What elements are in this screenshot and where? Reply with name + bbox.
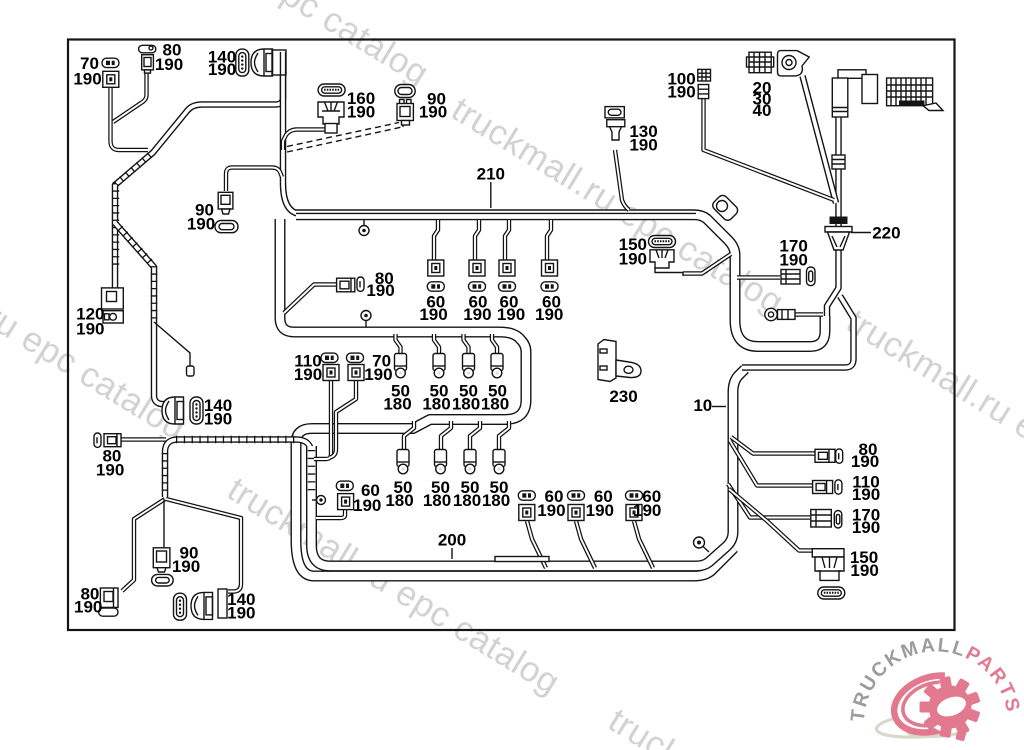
svg-text:190: 190 xyxy=(852,518,880,537)
clip at trunk200 corner xyxy=(703,547,709,553)
right column wires xyxy=(731,437,815,454)
wire 80/190 top lead xyxy=(113,72,147,122)
svg-text:180: 180 xyxy=(481,395,509,414)
pink swoosh crescents (behind gear) xyxy=(894,676,959,733)
140/190 mid-left xyxy=(162,397,184,424)
60/190 left-mid xyxy=(336,481,353,490)
bracket with hole 20/30/40 xyxy=(778,51,810,76)
wire from 80/190 left to striped pipe xyxy=(121,437,166,441)
svg-text:190: 190 xyxy=(347,103,375,122)
svg-text:190: 190 xyxy=(629,136,657,155)
clip on loop top xyxy=(365,321,367,328)
trunk 210 xyxy=(296,215,825,347)
svg-text:190: 190 xyxy=(586,501,614,520)
eyelet terminal xyxy=(765,308,777,320)
left loop pipe (middle) xyxy=(280,219,734,576)
90/190 mid connector xyxy=(218,192,233,209)
row2 50/180 wires xyxy=(404,421,414,450)
dashed wires to 90/190 xyxy=(287,127,402,152)
clip on striped pipe xyxy=(312,499,317,501)
bottom 140/190 xyxy=(174,593,187,620)
80/190 left xyxy=(94,433,101,447)
svg-text:190: 190 xyxy=(419,305,447,324)
100/190 wire xyxy=(704,98,835,200)
leader lines xyxy=(452,182,871,559)
svg-text:190: 190 xyxy=(204,410,232,429)
svg-text:180: 180 xyxy=(383,395,411,414)
sleeve on 220 pipe xyxy=(832,155,845,169)
eyelet wire xyxy=(795,312,823,316)
150/190 center connector xyxy=(649,236,676,248)
20/30/40 wire xyxy=(803,76,837,203)
bottom-left 80/190 xyxy=(100,588,118,607)
pipe top-left run to 120/190 xyxy=(115,52,283,292)
thin branch to small connector xyxy=(154,322,190,366)
svg-text:190: 190 xyxy=(850,561,878,580)
svg-text:190: 190 xyxy=(294,365,322,384)
svg-text:190: 190 xyxy=(96,461,124,480)
svg-text:190: 190 xyxy=(366,281,394,300)
row1 50/180 boots xyxy=(395,354,407,378)
svg-text:190: 190 xyxy=(537,501,565,520)
svg-text:10: 10 xyxy=(693,396,712,415)
svg-text:190: 190 xyxy=(497,305,525,324)
220 drop pipe xyxy=(827,117,839,316)
left striped horizontal pipe xyxy=(165,440,312,498)
svg-text:190: 190 xyxy=(851,452,879,471)
60/190 left-mid wire xyxy=(316,510,345,518)
bottom-left split wires xyxy=(122,499,165,591)
svg-text:40: 40 xyxy=(753,101,772,120)
svg-text:180: 180 xyxy=(482,491,510,510)
bottom 90/190 xyxy=(153,548,170,568)
160/190 wire xyxy=(283,130,326,151)
110/190 pair wires xyxy=(314,381,331,459)
svg-text:190: 190 xyxy=(852,485,880,504)
svg-text:190: 190 xyxy=(463,305,491,324)
row1 50/180 wires xyxy=(396,334,401,354)
svg-text:190: 190 xyxy=(74,598,102,617)
svg-text:190: 190 xyxy=(73,70,101,89)
main vertical pipe from top connectors xyxy=(283,75,300,214)
corrugation stripes left trunk xyxy=(116,155,150,268)
splice bump on trunk 200 xyxy=(495,557,549,562)
svg-text:180: 180 xyxy=(423,491,451,510)
connector 70/190 xyxy=(102,58,119,67)
gray shadow swooshes xyxy=(876,718,962,737)
connector 100/190 xyxy=(698,69,711,81)
130/190 wire xyxy=(615,150,629,210)
mounting tab with hole at trunk elbow xyxy=(711,193,740,222)
four 60/190 connectors xyxy=(428,260,444,276)
svg-text:190: 190 xyxy=(227,604,255,623)
230 bracket xyxy=(598,340,616,382)
svg-text:180: 180 xyxy=(453,491,481,510)
170/190 center connector xyxy=(781,270,800,285)
svg-text:190: 190 xyxy=(172,557,200,576)
svg-text:210: 210 xyxy=(477,164,505,183)
svg-text:220: 220 xyxy=(872,224,900,243)
svg-text:190: 190 xyxy=(419,103,447,122)
connector 20/30/40 grid xyxy=(749,52,771,72)
L-boot connector xyxy=(838,70,866,79)
svg-text:180: 180 xyxy=(452,395,480,414)
right column connectors xyxy=(815,449,835,462)
left-mid 80/190 wire xyxy=(284,285,336,314)
svg-text:180: 180 xyxy=(422,395,450,414)
svg-text:190: 190 xyxy=(619,250,647,269)
svg-text:200: 200 xyxy=(438,531,466,550)
four 60/190 drop wires from trunk 210 xyxy=(434,220,438,261)
wire 70/190 lead xyxy=(111,88,149,150)
connector 80/190 top xyxy=(139,45,156,53)
150/190 wire xyxy=(683,254,731,274)
clip on trunk 210 xyxy=(363,220,365,226)
row2 50/180 boots xyxy=(397,450,409,474)
connector 140/190 top xyxy=(236,49,249,76)
90/190 mid wire xyxy=(226,168,282,192)
170/190 wire xyxy=(737,275,780,279)
connector 90/190 top xyxy=(395,85,415,98)
svg-text:190: 190 xyxy=(535,305,563,324)
striped vertical into trunk200 xyxy=(312,369,746,566)
right grid connector xyxy=(887,78,933,106)
svg-text:180: 180 xyxy=(385,491,413,510)
80/190 left-mid connector xyxy=(337,278,355,292)
svg-text:190: 190 xyxy=(779,251,807,270)
border frame xyxy=(68,40,955,631)
svg-text:190: 190 xyxy=(667,83,695,102)
bottom three 60/190 xyxy=(518,491,535,500)
svg-text:230: 230 xyxy=(609,387,637,406)
svg-text:190: 190 xyxy=(76,319,104,338)
svg-text:190: 190 xyxy=(187,215,215,234)
110/190 pair xyxy=(321,353,338,362)
220 connector xyxy=(830,217,848,225)
svg-text:190: 190 xyxy=(633,501,661,520)
bottom three 60/190 wires xyxy=(527,521,546,568)
pipe branch to 140/190 mid-left xyxy=(115,223,165,404)
connector 130/190 xyxy=(605,107,624,118)
gear xyxy=(924,681,976,733)
lower horizontal pipe right xyxy=(742,296,854,368)
svg-text:190: 190 xyxy=(353,496,381,515)
svg-text:190: 190 xyxy=(208,60,236,79)
svg-text:190: 190 xyxy=(155,55,183,74)
120/190 connector xyxy=(102,288,124,309)
svg-text:190: 190 xyxy=(364,365,392,384)
connector 160/190 xyxy=(318,84,345,96)
